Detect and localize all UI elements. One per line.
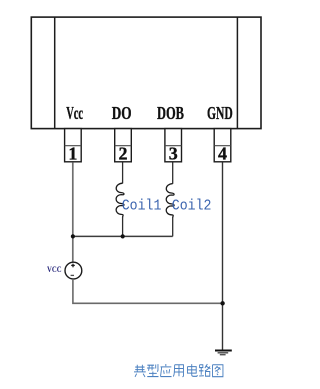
horizontal wire node A to coil rail xyxy=(73,235,173,237)
svg-text:3: 3 xyxy=(169,144,178,164)
inductor L1 (Coil1) xyxy=(116,183,124,217)
pin label DO xyxy=(112,103,132,123)
wire pin4 to ground xyxy=(222,162,224,350)
package left tab divider xyxy=(54,17,56,129)
pin label DOB xyxy=(157,103,184,123)
pin 1 box xyxy=(65,129,82,164)
char 用 xyxy=(173,365,183,377)
char 电 xyxy=(187,364,197,376)
svg-text:Vcc: Vcc xyxy=(66,103,83,123)
IC package body U1 xyxy=(31,17,261,129)
package right tab divider xyxy=(236,17,238,129)
char 路 xyxy=(199,364,210,376)
voltage source V1 label VCC xyxy=(47,265,62,274)
ground symbol xyxy=(215,351,232,355)
caption 典型应用电路图 (hand-drawn glyphs) xyxy=(134,364,223,377)
svg-text:2: 2 xyxy=(119,144,128,164)
svg-text:4: 4 xyxy=(218,144,227,164)
wire V1 bottom to bottom rail xyxy=(73,279,223,303)
svg-text:Coil1: Coil1 xyxy=(122,199,162,215)
pin 2 box xyxy=(115,129,132,164)
char 典 xyxy=(134,365,146,377)
svg-text:Coil2: Coil2 xyxy=(172,199,212,215)
wire pin1 to node A xyxy=(72,162,74,262)
junction node B (pin2 rail) xyxy=(121,234,125,238)
label Coil2 xyxy=(172,199,212,215)
pin label GND xyxy=(207,103,233,123)
pin label Vcc xyxy=(66,103,83,123)
svg-text:VCC: VCC xyxy=(47,265,62,274)
junction node A (pin1 rail) xyxy=(71,234,75,238)
pin 4 box xyxy=(214,129,231,164)
char 图 xyxy=(213,365,223,377)
svg-text:DOB: DOB xyxy=(157,103,184,123)
char 型 xyxy=(147,364,159,376)
wire coil L2 bottom to rail corner xyxy=(172,217,174,236)
junction node C (pin4 bottom rail) xyxy=(220,301,224,305)
pin 3 box xyxy=(165,129,182,164)
inductor L2 (Coil2) xyxy=(166,184,174,218)
wire pin3 to coil L2 top xyxy=(172,162,174,184)
wire coil L1 bottom to node B xyxy=(122,217,124,236)
label Coil1 xyxy=(122,199,162,215)
svg-text:1: 1 xyxy=(68,144,77,164)
char 应 xyxy=(161,364,172,377)
svg-text:GND: GND xyxy=(207,103,233,123)
voltage source V1 circle xyxy=(65,262,82,279)
svg-text:DO: DO xyxy=(112,103,132,123)
wire pin2 to coil L1 top xyxy=(122,162,124,183)
